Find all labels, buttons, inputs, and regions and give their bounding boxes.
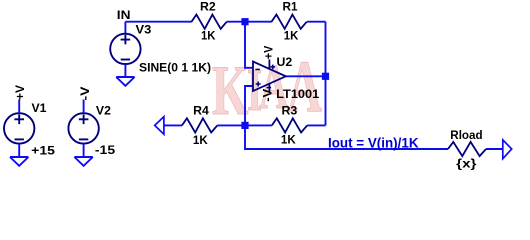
wire right vertical	[325, 22, 327, 126]
wire IN top horizontal (left of R2)	[125, 21, 191, 23]
junction node B (op-amp output)	[322, 73, 329, 80]
wire right of Rload	[486, 148, 503, 150]
op-amp U2	[253, 59, 286, 92]
voltage source V3	[110, 34, 140, 64]
wire V2 top stub	[83, 100, 85, 114]
ground (under V2)	[74, 144, 92, 166]
port arrow (left, R4)	[155, 117, 164, 135]
ground (under V1)	[10, 144, 28, 166]
svg-text:U2: U2	[277, 55, 293, 69]
svg-text:V2: V2	[96, 104, 111, 118]
supply minus mark	[267, 87, 272, 89]
svg-text:R1: R1	[283, 0, 298, 14]
resistor R1	[272, 15, 307, 29]
svg-text:SINE(0 1 1K): SINE(0 1 1K)	[139, 60, 211, 74]
svg-text:Iout = V(in)/1K: Iout = V(in)/1K	[328, 134, 419, 150]
watermark KIA	[212, 45, 322, 131]
svg-text:IN: IN	[117, 8, 131, 22]
wire node C to R3	[245, 124, 272, 126]
wire top right of R1	[307, 21, 326, 23]
svg-text:R4: R4	[193, 104, 209, 118]
svg-text:1K: 1K	[281, 133, 296, 147]
wire between R4 and node C	[217, 124, 245, 126]
svg-text:1K: 1K	[201, 29, 216, 43]
voltage source V1	[4, 113, 34, 143]
wire non-inverting input	[245, 86, 253, 125]
supply plus mark	[271, 65, 276, 70]
ground (under V3)	[116, 64, 134, 86]
svg-text:LT1001: LT1001	[276, 87, 319, 101]
svg-text:+15: +15	[31, 143, 55, 157]
resistor R2	[192, 15, 227, 29]
svg-text:-V: -V	[78, 87, 92, 101]
pin V+	[268, 59, 270, 69]
svg-text:{x}: {x}	[456, 157, 477, 171]
voltage source V2	[68, 113, 98, 143]
wire op-amp output	[286, 75, 326, 77]
wire bottom left of R4	[164, 124, 182, 126]
svg-text:-15: -15	[95, 143, 116, 157]
wire right of R3	[307, 124, 325, 126]
svg-text:Rload: Rload	[450, 128, 482, 142]
wire V3 stem	[124, 22, 126, 35]
svg-text:-V: -V	[260, 89, 274, 102]
wire V1 top stub	[18, 100, 20, 114]
svg-text:1K: 1K	[284, 29, 299, 43]
resistor R4	[182, 118, 217, 132]
minus input mark	[255, 68, 260, 70]
plus input mark	[256, 82, 261, 87]
svg-text:+V: +V	[13, 85, 27, 100]
svg-text:K: K	[212, 51, 249, 130]
wire Iout	[245, 125, 448, 149]
pin V-	[268, 84, 270, 93]
svg-text:1K: 1K	[193, 133, 208, 147]
wire top between R2 and R1	[227, 21, 272, 23]
port arrow (right, Rload)	[503, 140, 512, 159]
svg-text:+V: +V	[261, 46, 275, 60]
junction node C (bottom)	[241, 122, 248, 129]
svg-text:R2: R2	[200, 0, 216, 14]
wire inverting input	[245, 22, 253, 68]
junction node A (top)	[241, 18, 248, 25]
svg-text:V3: V3	[136, 23, 152, 37]
svg-text:R3: R3	[282, 104, 298, 118]
resistor R3	[272, 118, 307, 132]
svg-text:V1: V1	[32, 101, 47, 115]
resistor Rload	[448, 142, 486, 156]
